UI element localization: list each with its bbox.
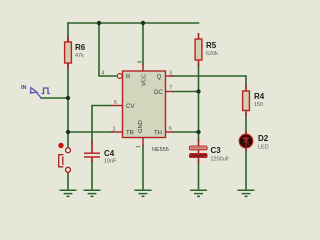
pin 1 GND stub bbox=[142, 138, 144, 147]
pin 5 CV stub bbox=[111, 105, 123, 107]
generator IN (pulse source) bbox=[31, 88, 51, 99]
wire button bottom to ground bbox=[67, 172, 69, 190]
svg-text:TR: TR bbox=[126, 131, 135, 137]
wire IN generator to left rail bbox=[41, 97, 68, 99]
resistor R4 bbox=[243, 85, 250, 116]
junction top rail / pin4 branch bbox=[97, 21, 101, 25]
pin 3 Q stub bbox=[166, 75, 174, 77]
ground (C4) bbox=[84, 190, 101, 196]
junction TH / mid rail bbox=[196, 130, 200, 134]
svg-text:150: 150 bbox=[254, 102, 263, 108]
capacitor C4 bbox=[84, 141, 100, 162]
ground (D2) bbox=[238, 190, 255, 196]
svg-text:5: 5 bbox=[114, 100, 117, 106]
svg-text:47k: 47k bbox=[75, 53, 84, 59]
svg-text:10nF: 10nF bbox=[104, 159, 117, 165]
svg-text:C4: C4 bbox=[104, 149, 115, 158]
ground (IC pin1) bbox=[135, 190, 152, 196]
button top terminal bbox=[66, 148, 71, 153]
pin 6 TH stub bbox=[166, 131, 174, 133]
svg-text:LED: LED bbox=[258, 145, 269, 151]
wire R4 bottom to LED bbox=[245, 115, 247, 135]
wire C4 bottom to ground bbox=[91, 161, 93, 190]
junction top rail / pin8 branch bbox=[141, 21, 145, 25]
svg-text:R4: R4 bbox=[254, 92, 265, 101]
wire pin4 branch from top rail to reset bubble bbox=[99, 23, 117, 76]
wire mid rail R5 bottom to C3 top bbox=[198, 65, 200, 141]
wire pin8 VCC from top rail down bbox=[142, 23, 144, 65]
svg-text:R6: R6 bbox=[75, 43, 86, 52]
svg-text:7: 7 bbox=[169, 85, 172, 91]
svg-text:8: 8 bbox=[137, 60, 143, 63]
wire top rail from R6 top to R5 top bbox=[68, 22, 199, 24]
svg-text:CV: CV bbox=[126, 104, 134, 110]
wire LED bottom to ground bbox=[245, 148, 247, 191]
svg-text:D2: D2 bbox=[258, 134, 269, 143]
wire TH pin6 to mid rail bbox=[173, 131, 199, 133]
svg-text:GND: GND bbox=[138, 120, 144, 133]
wire DC pin7 to mid rail bbox=[173, 91, 199, 93]
junction TR / left rail bbox=[66, 130, 70, 134]
junction IN / left rail bbox=[66, 96, 70, 100]
button bottom terminal bbox=[66, 167, 71, 172]
button actuator red dot bbox=[58, 143, 63, 148]
wire pin1 GND down to ground bbox=[142, 146, 144, 190]
svg-text:6: 6 bbox=[169, 126, 172, 132]
capacitor C3 electrolytic bbox=[190, 139, 208, 163]
wire CV pin5 to C4 bbox=[92, 106, 111, 143]
svg-text:4: 4 bbox=[102, 70, 105, 76]
diode D2 LED bbox=[239, 131, 253, 151]
button bracket bbox=[59, 155, 64, 167]
svg-text:2200uF: 2200uF bbox=[211, 157, 230, 163]
resistor R5 bbox=[195, 33, 202, 66]
pin 8 VCC stub bbox=[142, 64, 144, 71]
svg-text:620k: 620k bbox=[206, 51, 218, 57]
svg-text:Q: Q bbox=[157, 75, 162, 81]
pin 2 TR stub bbox=[111, 131, 123, 133]
svg-text:3: 3 bbox=[169, 70, 172, 76]
wire C3 bottom to ground bbox=[198, 162, 200, 190]
push-button switch bbox=[58, 143, 70, 173]
svg-text:TH: TH bbox=[154, 131, 162, 137]
svg-text:1: 1 bbox=[136, 145, 142, 148]
svg-text:2: 2 bbox=[113, 127, 116, 133]
pin 7 DC stub bbox=[166, 91, 174, 93]
wire Q pin3 to R4 top bbox=[172, 76, 246, 86]
pin 4 reset bubble bbox=[117, 74, 122, 79]
svg-text:DC: DC bbox=[154, 90, 163, 96]
resistor R6 bbox=[65, 36, 72, 69]
svg-text:C3: C3 bbox=[211, 146, 222, 155]
svg-text:NE555: NE555 bbox=[152, 147, 169, 153]
wire TR pin2 horizontal bbox=[68, 131, 112, 133]
svg-text:VCC: VCC bbox=[141, 74, 147, 86]
svg-text:R: R bbox=[126, 75, 131, 81]
ground (button) bbox=[60, 190, 77, 196]
svg-text:R5: R5 bbox=[206, 41, 217, 50]
ground (C3) bbox=[190, 190, 207, 196]
svg-text:IN: IN bbox=[21, 85, 27, 91]
wire left rail x=68 from top rail down to button bbox=[67, 23, 69, 148]
op-amp U1 NE555 body bbox=[111, 64, 173, 146]
junction DC / mid rail bbox=[196, 89, 200, 93]
